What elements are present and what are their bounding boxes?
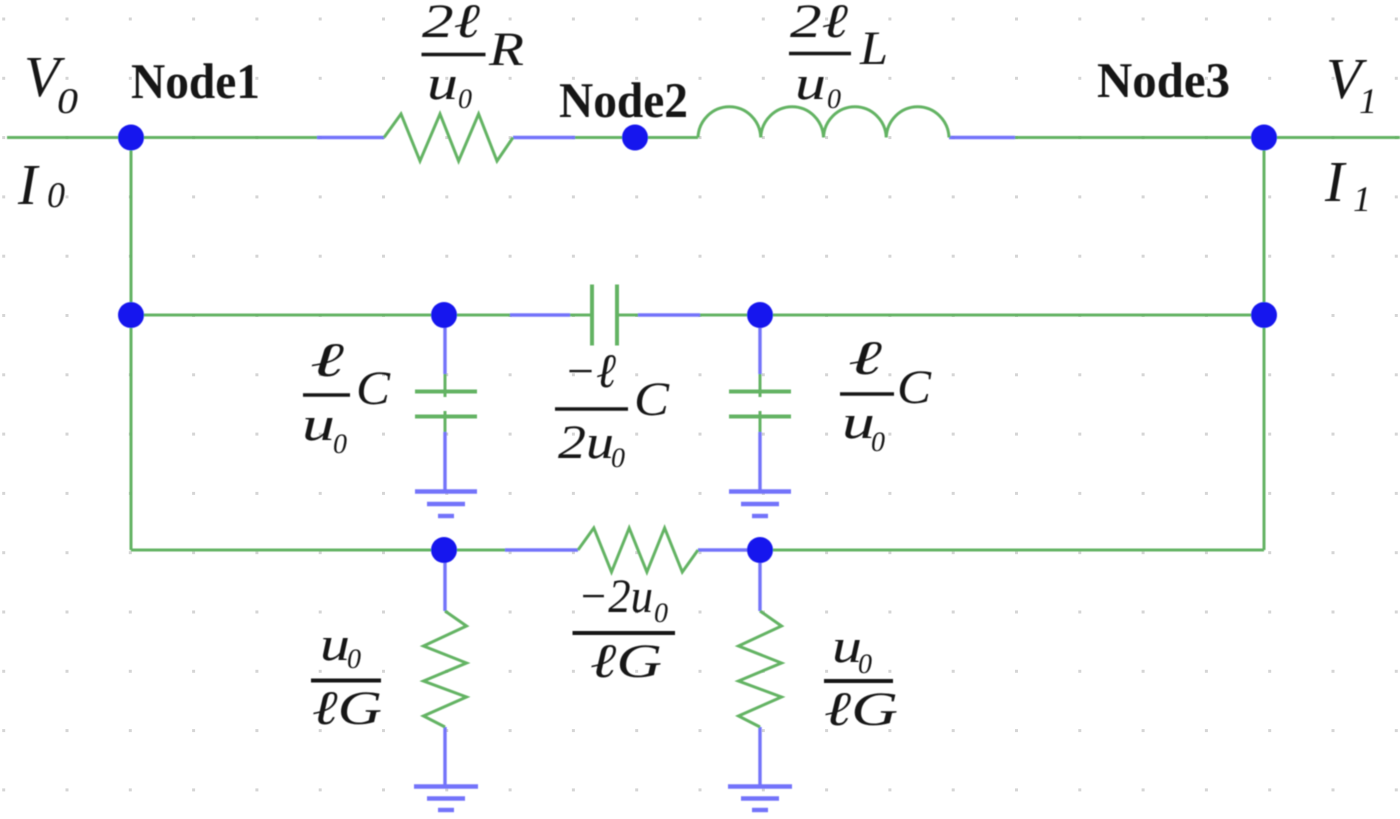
svg-text:Node2: Node2 bbox=[559, 72, 688, 128]
value label l/u0 C for left shunt capacitor bbox=[302, 334, 391, 460]
svg-text:2ℓ: 2ℓ bbox=[790, 0, 848, 48]
svg-text:0: 0 bbox=[654, 598, 668, 629]
resistor shunt left (u0/lG) bbox=[424, 550, 467, 786]
svg-text:0: 0 bbox=[333, 429, 347, 460]
inductor L (2l/u0 L) humps bbox=[698, 107, 949, 138]
svg-text:0: 0 bbox=[871, 427, 885, 458]
svg-text:u: u bbox=[302, 398, 335, 451]
svg-text:Node3: Node3 bbox=[1097, 52, 1230, 108]
svg-text:0: 0 bbox=[57, 81, 78, 121]
node Node3 junction dot bbox=[1251, 125, 1277, 151]
svg-text:ℓG: ℓG bbox=[824, 683, 898, 736]
wire middle row blue segments bbox=[510, 313, 700, 316]
svg-text:0: 0 bbox=[611, 443, 625, 474]
node middle cap-right junction dot bbox=[747, 302, 773, 328]
node middle cap-left junction dot bbox=[431, 302, 457, 328]
svg-text:u: u bbox=[320, 618, 350, 671]
node bottom-right junction dot bbox=[747, 537, 773, 563]
svg-text:1: 1 bbox=[1359, 81, 1377, 121]
value label u0/lG for left shunt resistor bbox=[311, 618, 382, 735]
svg-text:2u: 2u bbox=[558, 416, 614, 469]
svg-text:ℓ: ℓ bbox=[310, 334, 344, 387]
svg-text:−2u: −2u bbox=[578, 570, 653, 623]
wire left vertical bbox=[130, 138, 133, 551]
svg-text:u: u bbox=[427, 57, 458, 110]
svg-text:−ℓ: −ℓ bbox=[564, 345, 616, 398]
svg-text:0: 0 bbox=[858, 649, 872, 680]
label I1 bbox=[1324, 149, 1371, 219]
value label u0/lG for right shunt resistor bbox=[824, 620, 898, 736]
ground for right shunt capacitor bbox=[729, 492, 791, 517]
value label 2l/u0 R for resistor bbox=[422, 0, 525, 115]
node middle-right junction dot bbox=[1251, 302, 1277, 328]
svg-text:R: R bbox=[488, 23, 524, 76]
value label -2u0/lG for series bottom resistor bbox=[573, 570, 676, 688]
svg-text:2ℓ: 2ℓ bbox=[422, 0, 480, 48]
svg-text:I: I bbox=[1324, 149, 1347, 214]
svg-text:C: C bbox=[897, 361, 932, 414]
label V0 bbox=[24, 44, 78, 121]
svg-text:C: C bbox=[634, 373, 670, 426]
capacitor series (-l/2u0 C) bbox=[592, 285, 617, 346]
svg-text:0: 0 bbox=[458, 84, 472, 115]
svg-text:ℓG: ℓG bbox=[312, 682, 382, 735]
wire bottom row green segments bbox=[131, 549, 1264, 552]
value label l/u0 C for right shunt capacitor bbox=[840, 332, 932, 458]
wire top row blue segments bbox=[317, 136, 1015, 139]
value label -l/2u0 C for series capacitor bbox=[555, 345, 670, 474]
wire top row green segments bbox=[7, 136, 1400, 139]
wire right vertical bbox=[1263, 138, 1266, 551]
svg-text:u: u bbox=[795, 57, 826, 110]
wire bottom row blue segments bbox=[505, 548, 760, 551]
value label 2l/u0 L for inductor bbox=[789, 0, 888, 115]
node bottom-left junction dot bbox=[431, 537, 457, 563]
svg-text:C: C bbox=[356, 362, 391, 415]
ground for left shunt capacitor bbox=[415, 492, 477, 517]
label I0 bbox=[17, 152, 65, 217]
svg-text:L: L bbox=[859, 22, 888, 75]
svg-text:I: I bbox=[17, 152, 40, 217]
node Node2 junction dot bbox=[622, 125, 648, 151]
wire middle row green segments bbox=[131, 314, 1264, 317]
svg-text:1: 1 bbox=[1353, 179, 1371, 219]
resistor R (2l/u0 R) zigzag bbox=[384, 114, 513, 161]
ground for right shunt resistor bbox=[728, 787, 792, 811]
node Node1 junction dot bbox=[118, 125, 144, 151]
svg-text:ℓ: ℓ bbox=[848, 332, 882, 385]
svg-text:0: 0 bbox=[347, 644, 361, 675]
label V1 bbox=[1326, 46, 1377, 121]
svg-text:ℓG: ℓG bbox=[590, 635, 662, 688]
resistor shunt right (u0/lG) bbox=[739, 550, 782, 786]
ground for left shunt resistor bbox=[414, 787, 478, 811]
capacitor shunt left (l/u0 C) bbox=[415, 315, 477, 491]
resistor series bottom (-2u0/lG) zigzag bbox=[578, 528, 698, 572]
svg-text:0: 0 bbox=[47, 175, 65, 215]
svg-text:0: 0 bbox=[827, 84, 841, 115]
node middle-left junction dot bbox=[118, 302, 144, 328]
capacitor shunt right (l/u0 C) bbox=[729, 315, 791, 491]
svg-text:Node1: Node1 bbox=[131, 53, 260, 109]
